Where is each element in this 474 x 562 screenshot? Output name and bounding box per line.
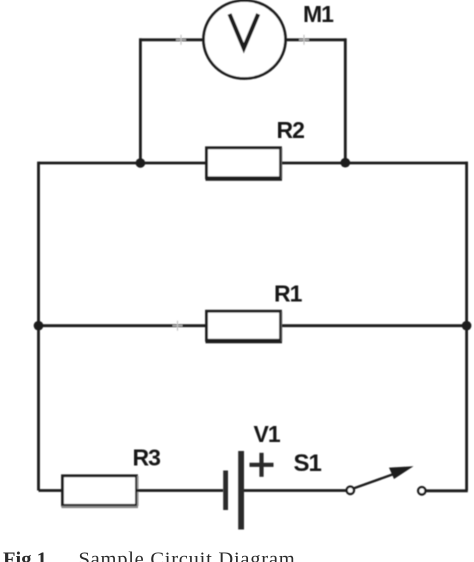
resistor R1 body	[206, 311, 283, 342]
resistor R2 body	[206, 148, 283, 180]
svg-text:S1: S1	[294, 450, 322, 477]
caption: Fig 1. Sample Circuit Diagram	[3, 549, 295, 562]
svg-text:R2: R2	[277, 117, 305, 143]
pin marker (voltmeter left terminal)	[176, 35, 186, 45]
wire switch-to-right-rail segment	[426, 489, 468, 492]
voltmeter M1 body	[204, 1, 286, 79]
svg-text:M1: M1	[303, 1, 334, 27]
switch S1 lever	[354, 472, 400, 488]
label S1	[294, 450, 322, 477]
svg-text:R3: R3	[133, 445, 161, 471]
label R3	[133, 445, 161, 471]
wire voltmeter-loop right vertical	[344, 38, 347, 163]
label R2	[277, 117, 305, 143]
switch S1 arrowhead	[389, 466, 414, 479]
pin marker (R1 left lead)	[173, 321, 183, 331]
junction dot (right V-loop / R2 row)	[341, 158, 351, 168]
wire top-right (voltmeter loop, horizontal)	[285, 38, 347, 41]
wire R2 row left segment	[39, 162, 207, 165]
junction dot (left rail / R1 row)	[34, 321, 44, 331]
junction dot (right rail / R1 row)	[462, 321, 472, 331]
wire R2 row right segment	[281, 162, 468, 165]
wire bottom row far-left segment	[39, 489, 64, 492]
wire left rail vertical	[37, 162, 40, 491]
wire right rail vertical	[465, 162, 468, 491]
junction dot (left V-loop / R2 row)	[136, 158, 146, 168]
wire battery-to-switch segment	[244, 489, 346, 492]
label M1	[303, 1, 334, 27]
resistor R3 body	[62, 476, 139, 507]
wire voltmeter-loop left vertical	[139, 38, 142, 163]
wire R3-to-battery segment	[137, 489, 224, 492]
battery V1 plus sign	[250, 453, 274, 477]
label V1	[254, 421, 281, 447]
switch S1 left contact circle	[347, 487, 354, 494]
wire R1 row left segment	[39, 324, 207, 327]
switch S1 right contact circle	[418, 487, 425, 494]
label R1	[274, 281, 303, 307]
battery V1 negative plate (short)	[223, 471, 228, 511]
battery V1 positive plate (long)	[238, 451, 244, 530]
voltmeter V glyph	[230, 14, 259, 48]
svg-text:V1: V1	[254, 421, 281, 447]
svg-text:Fig 1.Sample Circuit Diagram: Fig 1.Sample Circuit Diagram	[3, 549, 295, 562]
wire R1 row right segment	[281, 324, 467, 327]
svg-text:R1: R1	[274, 281, 303, 307]
pin marker (voltmeter right terminal)	[299, 35, 309, 45]
wire top-left (voltmeter loop, horizontal)	[139, 38, 204, 41]
